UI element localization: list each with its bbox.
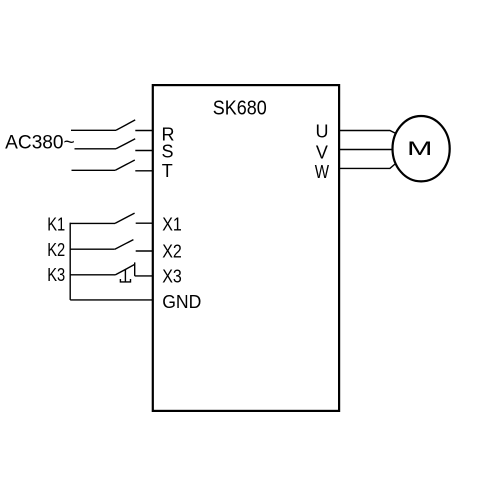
wire X1 stub: [136, 222, 153, 224]
wire GND: [70, 299, 152, 301]
svg-text:U: U: [316, 122, 329, 142]
wire R stub to pin R: [135, 130, 152, 132]
fixed contact X3: [134, 262, 136, 276]
wire V to motor: [339, 149, 393, 151]
switch S3 (phase T): [72, 160, 135, 170]
svg-text:X1: X1: [162, 214, 182, 234]
switch blade T: [115, 160, 135, 170]
wire S stub to pin S: [135, 150, 152, 152]
svg-text:SK680: SK680: [213, 97, 267, 119]
switch S2 (phase S): [75, 139, 136, 149]
switch K1 contact: [70, 213, 134, 223]
svg-text:S: S: [162, 142, 174, 162]
wire T left: [72, 169, 116, 171]
wire W to motor: [339, 164, 396, 169]
svg-text:K3: K3: [47, 265, 65, 285]
svg-text:GND: GND: [162, 292, 201, 312]
switch blade R: [116, 120, 135, 130]
svg-text:K1: K1: [47, 215, 65, 235]
wire S left: [75, 148, 117, 150]
wire K2: [70, 248, 115, 250]
switch blade K2: [115, 240, 134, 250]
svg-text:X2: X2: [162, 241, 182, 261]
switch S1 (phase R): [71, 120, 135, 130]
wire bus left (K1/K2/K3 common to GND): [69, 223, 71, 300]
motor M1 circle: [393, 116, 450, 181]
wire T stub to pin T: [135, 170, 152, 172]
svg-text:X3: X3: [162, 267, 182, 287]
svg-text:T: T: [162, 161, 173, 181]
switch blade K1: [115, 213, 135, 223]
wire K1: [70, 222, 115, 224]
pushbutton K3: [70, 262, 135, 282]
svg-text:M: M: [407, 138, 433, 160]
switch blade S: [116, 139, 135, 149]
wire U to motor: [339, 131, 396, 134]
wire K3: [70, 274, 115, 276]
svg-text:V: V: [316, 143, 328, 163]
svg-text:K2: K2: [47, 240, 65, 260]
switch blade K3: [116, 264, 135, 274]
svg-text:AC380~: AC380~: [5, 132, 75, 153]
svg-text:W: W: [315, 162, 329, 182]
pushbutton actuator cap: [120, 279, 130, 282]
switch K2 contact: [70, 240, 133, 250]
pushbutton actuator stem: [124, 270, 126, 282]
inverter box U1 SK680: [153, 85, 339, 411]
wire X2 stub: [136, 250, 153, 252]
wire X3 stub: [135, 275, 153, 277]
wire R left: [71, 129, 116, 131]
